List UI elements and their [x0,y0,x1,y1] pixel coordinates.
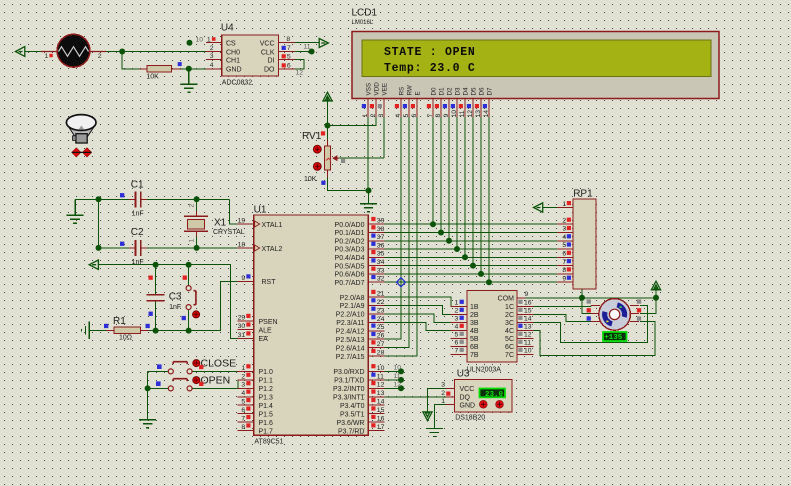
svg-text:2: 2 [370,114,377,118]
node RST net junction [186,328,192,334]
wire reset button bottom stub [188,310,190,331]
ground C1 rail [67,199,84,223]
wire LCD D7 down [488,117,490,282]
wire ULN COM rail [526,285,657,298]
svg-text:24: 24 [377,316,385,323]
node net10 CS junction [187,40,193,46]
svg-text:P3.0/RXD: P3.0/RXD [333,369,364,376]
wire ULN 4C to motor right-bottom [526,321,656,355]
svg-text:4: 4 [241,390,245,397]
svg-text:3B: 3B [470,320,479,327]
node D3-P0.3 junction [454,246,460,252]
svg-text:D3: D3 [455,87,462,96]
svg-text:DQ: DQ [460,395,471,402]
svg-text:RV1: RV1 [302,131,322,142]
wire DS18B20 GND to ground [434,405,446,429]
resistor R2 10K divider [140,66,181,81]
ground R1 sideways [82,322,90,339]
wire LCD D6 down [480,117,482,274]
wire P2.0 to ULN 1B [384,297,451,306]
node net10 P3.0 terminator [398,368,404,374]
wire LCD RS down to P2.5 [384,117,401,339]
svg-text:1: 1 [207,37,211,44]
svg-text:5B: 5B [470,336,479,343]
node D2-P0.2 junction [446,238,452,244]
node COM rail RP1 junction [579,295,585,301]
svg-text:7: 7 [455,348,459,355]
svg-text:1: 1 [362,114,369,118]
op-amp U4 ADC0832 [178,22,311,86]
node net12 P3.2 terminator [398,385,404,391]
svg-text:Temp: 23.0 C: Temp: 23.0 C [384,62,475,75]
svg-text:3C: 3C [505,320,514,327]
wire crystal top stub [196,199,198,216]
svg-text:8: 8 [241,424,245,431]
node COM rail power junction [653,295,659,301]
svg-text:D6: D6 [479,87,486,96]
svg-text:12: 12 [296,70,304,77]
svg-text:10Ω: 10Ω [119,335,132,342]
svg-text:14: 14 [524,316,532,323]
svg-text:P0.1/AD1: P0.1/AD1 [335,230,365,237]
wire thermistor input [25,51,206,53]
svg-text:P1.7: P1.7 [259,428,274,435]
svg-text:10: 10 [394,364,402,371]
svg-text:10: 10 [451,110,458,118]
stepper motor [587,299,642,331]
svg-text:1nF: 1nF [169,304,181,311]
LCD1 LM016L [352,8,720,118]
svg-text:3: 3 [210,53,214,60]
capacitor C1 [120,180,147,218]
power terminal thermistor left [15,47,24,57]
wire LCD D3 down [456,117,458,249]
svg-text:2C: 2C [505,312,514,319]
svg-text:16: 16 [377,416,385,423]
svg-text:P1.3: P1.3 [259,394,274,401]
wire C1 right to crystal top [141,198,229,200]
wire C1 left to ground rail [75,198,135,200]
svg-text:10K: 10K [304,176,317,183]
power terminal RP1 pin1 [534,203,543,212]
crystal X1 [184,204,245,243]
svg-text:11: 11 [524,340,531,347]
wire P0.1 bus row [384,232,557,234]
svg-text:1B: 1B [470,304,479,311]
svg-text:9: 9 [443,114,450,118]
svg-text:RS: RS [399,87,406,96]
svg-text:12: 12 [377,382,385,389]
svg-text:6B: 6B [470,344,479,351]
svg-text:CRYSTAL: CRYSTAL [213,229,245,236]
svg-text:CLOSE: CLOSE [201,358,237,370]
svg-text:15: 15 [524,308,532,315]
svg-text:D5: D5 [471,87,478,96]
node D6-P0.6 junction [478,271,484,277]
power terminal VCC rail left [89,260,98,269]
wire RV1 bottom to ground node [328,178,369,191]
svg-text:U4: U4 [221,22,234,33]
svg-text:P2.2/A10: P2.2/A10 [336,312,365,319]
node D4-P0.4 junction [462,254,468,260]
wire C2 right to XTAL2 [141,247,237,249]
wire LCD E down to P2.7 [384,117,417,356]
svg-text:P1.6: P1.6 [259,420,274,427]
node C3 top junction [153,262,159,268]
svg-text:39: 39 [377,218,385,225]
wire 10K divider [122,52,206,69]
svg-text:DO: DO [264,67,275,74]
power terminal motor COM [651,281,660,290]
svg-text:6C: 6C [505,344,514,351]
wire crystal bottom stub [196,231,198,248]
wire C3 top stub [155,265,157,295]
wire ULN 1C to motor [526,305,592,308]
wire ULN 3C to motor right-top [526,306,648,343]
svg-text:PSEN: PSEN [259,319,278,326]
svg-text:2: 2 [98,53,102,60]
wire LCD VSS to ground [367,117,369,191]
wire VCC rail to EA [99,265,238,339]
ground DS18B20 [426,429,443,437]
ground U4 [180,69,197,93]
svg-text:36: 36 [377,242,385,249]
svg-text:27: 27 [377,341,385,348]
wire P2.3 to ULN 4B [384,322,450,330]
node D5-P0.5 junction [470,263,476,269]
node net11 P3.1 terminator [398,377,404,383]
svg-text:38: 38 [377,226,385,233]
wire P3.1 net 11 [384,379,401,381]
svg-text:11: 11 [377,373,384,380]
wire P2.1 to ULN 2B [384,306,450,315]
svg-text:11: 11 [394,373,401,380]
node C3 bottom junction [153,328,159,334]
svg-text:EA: EA [259,336,269,343]
svg-text:31: 31 [238,332,246,339]
wire ground rail vertical C1-C2 [98,199,100,248]
power terminal U4 VCC right [319,39,328,48]
svg-text:13: 13 [377,390,385,397]
svg-text:5: 5 [287,53,291,60]
svg-text:4: 4 [395,114,402,118]
wire P0.4 bus row [384,256,557,258]
svg-text:P2.1/A9: P2.1/A9 [340,303,365,310]
wire P0.2 bus row [384,240,557,242]
svg-text:6: 6 [455,340,459,347]
svg-text:R1: R1 [113,316,126,327]
svg-text:VCC: VCC [260,41,275,48]
svg-text:U3: U3 [457,368,470,379]
svg-text:2: 2 [441,390,445,397]
node net11 CLK junction [309,49,315,55]
svg-text:VSS: VSS [366,83,373,96]
svg-text:P2.7/A15: P2.7/A15 [336,354,365,361]
svg-text:P0.4/AD4: P0.4/AD4 [335,255,365,262]
svg-text:5: 5 [562,242,566,249]
svg-text:1: 1 [455,300,459,307]
wire P0.7 bus row [384,281,557,283]
svg-text:P1.0: P1.0 [259,369,274,376]
svg-text:13: 13 [475,110,482,118]
svg-text:P0.0/AD0: P0.0/AD0 [335,222,365,229]
svg-text:P0.2/AD2: P0.2/AD2 [335,239,365,246]
svg-text:7: 7 [427,114,434,118]
svg-text:VEE: VEE [382,83,389,96]
svg-text:D4: D4 [463,87,470,96]
svg-text:P2.5/A13: P2.5/A13 [336,337,365,344]
svg-text:4: 4 [562,234,566,241]
svg-text:3: 3 [378,114,385,118]
svg-text:1: 1 [562,201,566,208]
node C1 left junction [96,196,102,202]
wire LCD D4 down [464,117,466,257]
wire LCD D1 down [440,117,442,233]
reset button [182,276,200,321]
wire RP1 common down [582,289,591,314]
power terminal DS18B20 VCC down [423,412,432,421]
svg-text:3: 3 [241,382,245,389]
svg-text:13: 13 [524,324,532,331]
wire U4 VCC to terminal [295,42,319,44]
svg-text:CS: CS [226,41,236,48]
svg-text:21: 21 [377,291,385,298]
wire reset node rail to RST [149,281,238,330]
wire P2.2 to ULN 3B [384,314,450,322]
svg-text:30: 30 [238,323,246,330]
motor angle display [603,332,627,342]
svg-text:DS18B20: DS18B20 [455,415,485,422]
svg-text:LCD1: LCD1 [352,8,378,19]
node D7-P0.7 junction [486,279,492,285]
svg-text:35: 35 [377,251,385,258]
wire P0.0 bus row [384,223,557,225]
svg-text:19: 19 [238,218,246,225]
wire P0.6 bus row [384,273,557,275]
svg-text:4: 4 [210,62,214,69]
svg-text:5: 5 [403,114,410,118]
svg-text:23.0: 23.0 [485,391,504,399]
svg-text:D7: D7 [487,87,494,96]
node probe diamond P0.7 [397,278,406,287]
svg-text:VCC: VCC [460,386,475,393]
svg-text:1: 1 [45,53,49,60]
node VSS ground junction [366,188,372,194]
thermistor RT1 [41,34,106,67]
node button common junction [145,385,151,391]
svg-text:7: 7 [287,45,291,52]
svg-text:22: 22 [377,299,385,306]
svg-text:6: 6 [241,407,245,414]
svg-text:18: 18 [238,242,246,249]
svg-text:14: 14 [483,110,490,118]
svg-text:8: 8 [562,267,566,274]
svg-text:32: 32 [377,276,385,283]
svg-text:P3.3/INT1: P3.3/INT1 [333,394,365,401]
svg-text:P0.3/AD3: P0.3/AD3 [335,247,365,254]
svg-text:1: 1 [188,239,195,243]
svg-text:14: 14 [377,399,385,406]
svg-text:C3: C3 [169,291,182,302]
svg-text:DI: DI [268,58,275,65]
svg-text:2: 2 [455,308,459,315]
svg-text:7: 7 [241,416,245,423]
svg-text:CH1: CH1 [226,58,240,65]
svg-text:1nF: 1nF [132,259,144,266]
svg-text:25: 25 [377,324,385,331]
svg-text:CLK: CLK [261,49,275,56]
svg-text:15: 15 [377,407,385,414]
wire OPEN button to P1.1 [192,380,238,389]
svg-text:D2: D2 [447,87,454,96]
node C2 left junction [96,245,102,251]
svg-text:GND: GND [226,67,242,74]
wire LCD D5 down [472,117,474,266]
svg-text:5: 5 [455,332,459,339]
wire LCD D2 down [448,117,450,241]
capacitor C3 [147,276,182,316]
svg-text:17: 17 [377,424,385,431]
svg-text:5: 5 [241,399,245,406]
wire LCD D0 down [432,117,434,224]
svg-text:29: 29 [238,315,246,322]
node D1-P0.1 junction [438,230,444,236]
svg-text:2: 2 [241,373,245,380]
node VDD-RV1 junction [325,123,331,129]
svg-text:VDD: VDD [374,82,381,96]
wire LCD RW down to P2.6 [384,117,409,348]
svg-text:4C: 4C [505,328,514,335]
potentiometer RV1 [302,131,345,185]
svg-text:37: 37 [377,234,385,241]
svg-text:XTAL2: XTAL2 [262,246,283,253]
svg-text:RST: RST [262,279,277,286]
svg-text:OPEN: OPEN [201,375,231,387]
svg-text:16: 16 [524,300,532,307]
svg-text:7: 7 [562,259,566,266]
svg-text:6: 6 [411,114,418,118]
svg-text:6: 6 [562,251,566,258]
wire RV1 wiper to LCD VEE [339,117,384,158]
wire P3.3 to DS18B20 DQ [384,396,446,398]
svg-text:28: 28 [377,350,385,357]
wire CLOSE button left [148,370,169,372]
node XTAL2 junction [194,245,200,251]
node XTAL1 junction [194,196,200,202]
svg-text:2: 2 [188,204,195,208]
op-amp U2 ULN2003A [451,291,534,374]
wire LCD VDD to pot top [328,117,377,126]
node reset button top junction [186,262,192,268]
wire buttons common rail [148,371,169,419]
svg-text:AT89C51: AT89C51 [254,438,283,445]
wire U4 CLK stub net 11 [295,51,312,53]
wire RP1 pin1 to terminal [543,207,557,209]
svg-text:ULN2003A: ULN2003A [467,367,502,374]
capacitor C2 [120,227,147,266]
node D0-P0.0 junction [430,221,436,227]
svg-text:3: 3 [441,382,445,389]
svg-text:1C: 1C [505,304,514,311]
svg-text:2: 2 [562,217,566,224]
svg-text:12: 12 [467,110,474,118]
svg-text:4B: 4B [470,328,479,335]
svg-text:U1: U1 [254,204,267,215]
wire U4 GND to ground [188,69,190,84]
svg-text:9: 9 [241,275,245,282]
svg-text:2B: 2B [470,312,479,319]
ground buttons [139,420,156,428]
wire P0.5 bus row [384,265,557,267]
svg-text:C2: C2 [131,227,144,238]
svg-text:34: 34 [377,259,385,266]
wire XTAL1 connection [230,199,238,224]
svg-text:P1.4: P1.4 [259,403,274,410]
svg-text:12: 12 [524,332,532,339]
op-amp U1 AT89C51 [238,204,402,445]
power terminal RV1 top [323,92,332,101]
svg-text:E: E [415,91,422,95]
svg-text:11: 11 [304,44,311,51]
svg-text:+135: +135 [604,334,623,342]
svg-text:23: 23 [377,307,385,314]
svg-text:10: 10 [196,37,204,44]
svg-text:5C: 5C [505,336,514,343]
svg-text:4: 4 [455,324,459,331]
svg-text:33: 33 [377,267,385,274]
svg-text:P2.4/A12: P2.4/A12 [336,329,365,336]
svg-text:XTAL1: XTAL1 [262,222,283,229]
svg-text:10: 10 [524,348,532,355]
resistor R1 [104,316,150,342]
svg-text:7C: 7C [505,352,514,359]
svg-text:ALE: ALE [259,327,273,334]
svg-text:P3.4/T0: P3.4/T0 [340,403,365,410]
svg-text:C1: C1 [131,180,144,191]
svg-text:9: 9 [562,275,566,282]
wire CLOSE button to P1.0 [192,370,238,372]
svg-text:COM: COM [498,296,515,303]
wire reset button top stub [188,265,190,286]
svg-text:ADC0832: ADC0832 [222,80,252,87]
svg-text:D0: D0 [431,87,438,96]
svg-text:3: 3 [455,316,459,323]
svg-text:3: 3 [562,226,566,233]
svg-text:10K: 10K [146,74,159,81]
svg-text:P1.5: P1.5 [259,411,274,418]
svg-text:2: 2 [210,45,214,52]
svg-text:1: 1 [241,365,245,372]
svg-text:P3.6/WR: P3.6/WR [336,420,364,427]
svg-text:1nF: 1nF [132,210,144,217]
node thermistor-CH0 junction [119,49,125,55]
svg-text:STATE : OPEN: STATE : OPEN [384,46,475,59]
svg-text:P2.6/A14: P2.6/A14 [336,345,365,352]
svg-text:P0.7/AD7: P0.7/AD7 [335,280,365,287]
svg-text:CH0: CH0 [226,49,240,56]
svg-text:P0.5/AD5: P0.5/AD5 [335,263,365,270]
svg-text:P3.1/TXD: P3.1/TXD [334,378,364,385]
wire P0.3 bus row [384,248,557,250]
svg-text:1: 1 [441,398,445,405]
speaker LS1 [66,115,96,157]
wire P3.2 net 12 [384,387,401,389]
button OPEN [156,375,230,391]
svg-text:LM016L: LM016L [352,20,374,26]
svg-text:D1: D1 [439,87,446,96]
svg-text:P3.7/RD: P3.7/RD [338,428,364,435]
svg-text:GND: GND [460,402,476,409]
